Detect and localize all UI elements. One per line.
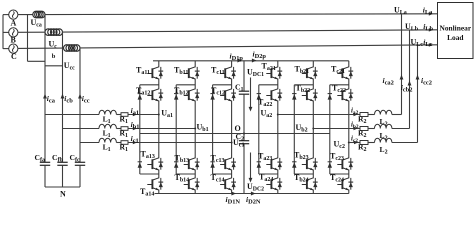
clamp branch a1 xyxy=(139,85,141,174)
leg b1 spine top xyxy=(194,61,196,67)
capacitor C2 xyxy=(239,140,249,142)
wire xyxy=(194,170,196,178)
wire phase A line xyxy=(45,13,438,16)
wire xyxy=(348,170,350,178)
current arrow iLa xyxy=(429,12,433,16)
wire xyxy=(368,142,375,144)
clamp diode lower a2 xyxy=(257,161,261,163)
wire source bus xyxy=(2,15,4,49)
leg a2 output spine xyxy=(277,101,279,158)
wire shunt tap C xyxy=(417,45,419,142)
current arrow shunt row 1 xyxy=(354,113,358,116)
IGBT Ta12 xyxy=(151,90,153,100)
inductor L2 row 3 xyxy=(375,138,392,142)
clamp diode upper c2 xyxy=(328,93,332,95)
current arrow ib1 xyxy=(133,127,137,131)
clamp stub lower a2 xyxy=(259,173,278,175)
junction dot output c1 xyxy=(231,142,233,144)
wire node A drop xyxy=(44,15,46,163)
wire DC neutral O rail xyxy=(140,133,330,135)
IGBT Tc13 xyxy=(224,159,226,169)
leg b2 spine top xyxy=(312,61,314,67)
inductor L1 row 2 xyxy=(99,124,116,128)
capacitor Cfc xyxy=(75,161,85,163)
clamp stub upper a1 xyxy=(140,84,159,86)
wire filter row 3 right xyxy=(128,142,232,144)
IGBT Tb13 xyxy=(188,159,190,169)
IGBT Tc23 xyxy=(341,159,343,169)
clamp branch b1 xyxy=(175,85,177,174)
resistor R1 row 2 xyxy=(121,127,128,131)
ac source phase C xyxy=(3,48,9,50)
clamp stub lower b1 xyxy=(176,173,195,175)
svg-text:Load: Load xyxy=(447,33,464,42)
current arrow shunt row 3 xyxy=(354,141,358,144)
resistor R1 row 3 xyxy=(121,141,128,145)
wire xyxy=(158,79,160,89)
current arrow icb2 xyxy=(408,81,412,86)
wire xyxy=(312,79,314,89)
wire shunt row 1 left xyxy=(278,114,360,116)
capacitor Cfa xyxy=(40,161,50,163)
IGBT Tc22 xyxy=(341,90,343,100)
leg a1 spine top xyxy=(158,61,160,67)
series winding Uca xyxy=(33,11,40,18)
wire node B drop xyxy=(62,32,64,162)
current arrow iLb xyxy=(429,28,433,32)
IGBT Ta14 xyxy=(151,179,153,189)
wire filter row 3 left xyxy=(80,142,99,144)
inductor L1 row 3 xyxy=(99,138,116,142)
current arrow icb xyxy=(61,94,65,99)
current arrow iLc xyxy=(429,43,433,47)
inductor L2 row 1 xyxy=(375,110,392,114)
wire xyxy=(194,79,196,89)
wire xyxy=(368,114,375,116)
clamp diode lower b2 xyxy=(292,161,296,163)
clamp diode lower c2 xyxy=(328,161,332,163)
ac source phase A xyxy=(3,14,9,16)
current arrow ic1 xyxy=(133,141,137,145)
IGBT Ta21 xyxy=(270,68,272,78)
wire DC cap column xyxy=(243,61,245,91)
leg a2 spine top xyxy=(277,61,279,67)
wire filter row 2 right xyxy=(128,128,195,130)
IGBT Tc14 xyxy=(224,179,226,189)
resistor R2 row 1 xyxy=(360,113,368,117)
IGBT Ta13 xyxy=(151,159,153,169)
current arrow iD1p xyxy=(237,59,242,63)
wire xyxy=(368,128,375,130)
wire xyxy=(158,190,160,194)
clamp stub upper b1 xyxy=(176,84,195,86)
wire shunt row 3 left xyxy=(349,142,360,144)
clamp diode upper a2 xyxy=(257,93,261,95)
wire xyxy=(231,170,233,178)
current arrow iD1N xyxy=(231,192,236,196)
wire node C drop xyxy=(79,48,81,162)
wire xyxy=(116,114,121,116)
IGBT Ta22 xyxy=(270,90,272,100)
voltage arrow UDC1 xyxy=(250,78,252,108)
current arrow ia1 xyxy=(133,113,137,117)
clamp stub upper b2 xyxy=(294,84,313,86)
clamp diode upper a1 xyxy=(138,93,142,95)
wire shunt row 1 right xyxy=(392,114,402,116)
wire shunt tap A xyxy=(401,14,403,115)
capacitor Cfb xyxy=(57,161,67,163)
wire series bottom A xyxy=(28,60,46,62)
clamp diode upper b2 xyxy=(292,93,296,95)
IGBT Ta23 xyxy=(270,159,272,169)
clamp diode lower a1 xyxy=(138,161,142,163)
wire xyxy=(312,170,314,178)
IGBT Tb14 xyxy=(188,179,190,189)
wire xyxy=(194,190,196,194)
wire filter row 2 left xyxy=(63,128,100,130)
capacitor C1 xyxy=(239,90,249,92)
resistor R2 row 3 xyxy=(360,141,368,145)
IGBT Tb23 xyxy=(306,159,308,169)
clamp diode upper b1 xyxy=(174,93,178,95)
current arrow iD2p xyxy=(252,59,257,63)
current arrow shunt row 2 xyxy=(354,127,358,130)
clamp diode lower b1 xyxy=(174,161,178,163)
wire series bottom B xyxy=(45,65,63,67)
clamp stub upper c2 xyxy=(330,84,349,86)
resistor R2 row 2 xyxy=(360,127,368,131)
wire phase B line xyxy=(63,30,438,32)
wire xyxy=(348,79,350,89)
wire xyxy=(312,190,314,194)
ac source phase B xyxy=(3,31,9,33)
inductor L1 row 1 xyxy=(99,110,116,114)
clamp diode lower c1 xyxy=(210,161,214,163)
svg-text:A: A xyxy=(11,19,17,28)
current arrow icc2 xyxy=(416,75,420,80)
leg a1 output spine xyxy=(158,101,160,158)
clamp stub lower b2 xyxy=(294,173,313,175)
wire phase C line xyxy=(80,45,438,48)
junction dot O-capacitor xyxy=(243,132,245,134)
wire xyxy=(348,190,350,194)
IGBT Tc21 xyxy=(341,68,343,78)
IGBT Tb21 xyxy=(306,68,308,78)
leg b1 output spine xyxy=(194,101,196,158)
nonlinear load box xyxy=(438,3,474,59)
wire shunt tap B xyxy=(409,30,411,128)
junction dot output a1 xyxy=(158,114,160,116)
IGBT Tc24 xyxy=(341,179,343,189)
wire xyxy=(116,128,121,130)
junction dot output b1 xyxy=(194,128,196,130)
clamp stub upper c1 xyxy=(213,84,232,86)
leg c2 spine top xyxy=(348,61,350,67)
leg b2 output spine xyxy=(312,101,314,158)
wire shunt row 3 right xyxy=(392,142,418,144)
clamp stub lower a1 xyxy=(140,173,159,175)
IGBT Tb22 xyxy=(306,90,308,100)
clamp branch b2 xyxy=(293,85,295,174)
junction dot output b2 xyxy=(312,128,314,130)
svg-text:Nonlinear: Nonlinear xyxy=(439,23,471,32)
wire xyxy=(277,79,279,89)
svg-text:N: N xyxy=(60,190,66,199)
wire xyxy=(158,170,160,178)
series winding Ucb xyxy=(45,29,52,36)
junction dot output c2 xyxy=(348,142,350,144)
leg c1 output spine xyxy=(231,101,233,158)
IGBT Tb24 xyxy=(306,179,308,189)
wire filter row 1 left xyxy=(45,114,99,116)
clamp branch c2 xyxy=(329,85,331,174)
wire DC positive rail xyxy=(153,60,349,62)
wire shunt row 2 left xyxy=(313,128,360,130)
IGBT Tb11 xyxy=(188,68,190,78)
junction dot output a2 xyxy=(277,114,279,116)
clamp stub upper a2 xyxy=(259,84,278,86)
clamp stub lower c1 xyxy=(213,173,232,175)
IGBT Tc11 xyxy=(224,68,226,78)
current arrow icc xyxy=(78,94,82,99)
voltage arrow UDC2 xyxy=(250,153,252,179)
clamp branch a2 xyxy=(258,85,260,174)
current arrow ica xyxy=(43,94,47,99)
wire xyxy=(277,170,279,178)
leg c2 output spine xyxy=(348,101,350,158)
IGBT Ta24 xyxy=(270,179,272,189)
wire filter row 1 right xyxy=(128,114,159,116)
wire xyxy=(277,190,279,194)
wire xyxy=(116,142,121,144)
wire shunt row 2 right xyxy=(392,128,410,130)
series winding Ucc xyxy=(64,45,71,52)
wire neutral rail xyxy=(45,186,80,188)
wire DC negative rail xyxy=(155,193,349,195)
wire xyxy=(231,190,233,194)
leg c1 spine top xyxy=(231,61,233,67)
svg-text:C: C xyxy=(11,52,17,61)
clamp branch c1 xyxy=(212,85,214,174)
svg-text:b: b xyxy=(52,53,56,60)
current arrow iD2N xyxy=(251,192,256,196)
IGBT Ta11 xyxy=(151,68,153,78)
svg-text:B: B xyxy=(11,36,17,45)
clamp stub lower c2 xyxy=(330,173,349,175)
inductor L2 row 2 xyxy=(375,124,392,128)
clamp diode upper c1 xyxy=(210,93,214,95)
wire xyxy=(231,79,233,89)
IGBT Tb12 xyxy=(188,90,190,100)
resistor R1 row 1 xyxy=(121,113,128,117)
current arrow ica2 xyxy=(400,75,404,80)
IGBT Tc12 xyxy=(224,90,226,100)
wire series drop A left xyxy=(27,15,29,62)
